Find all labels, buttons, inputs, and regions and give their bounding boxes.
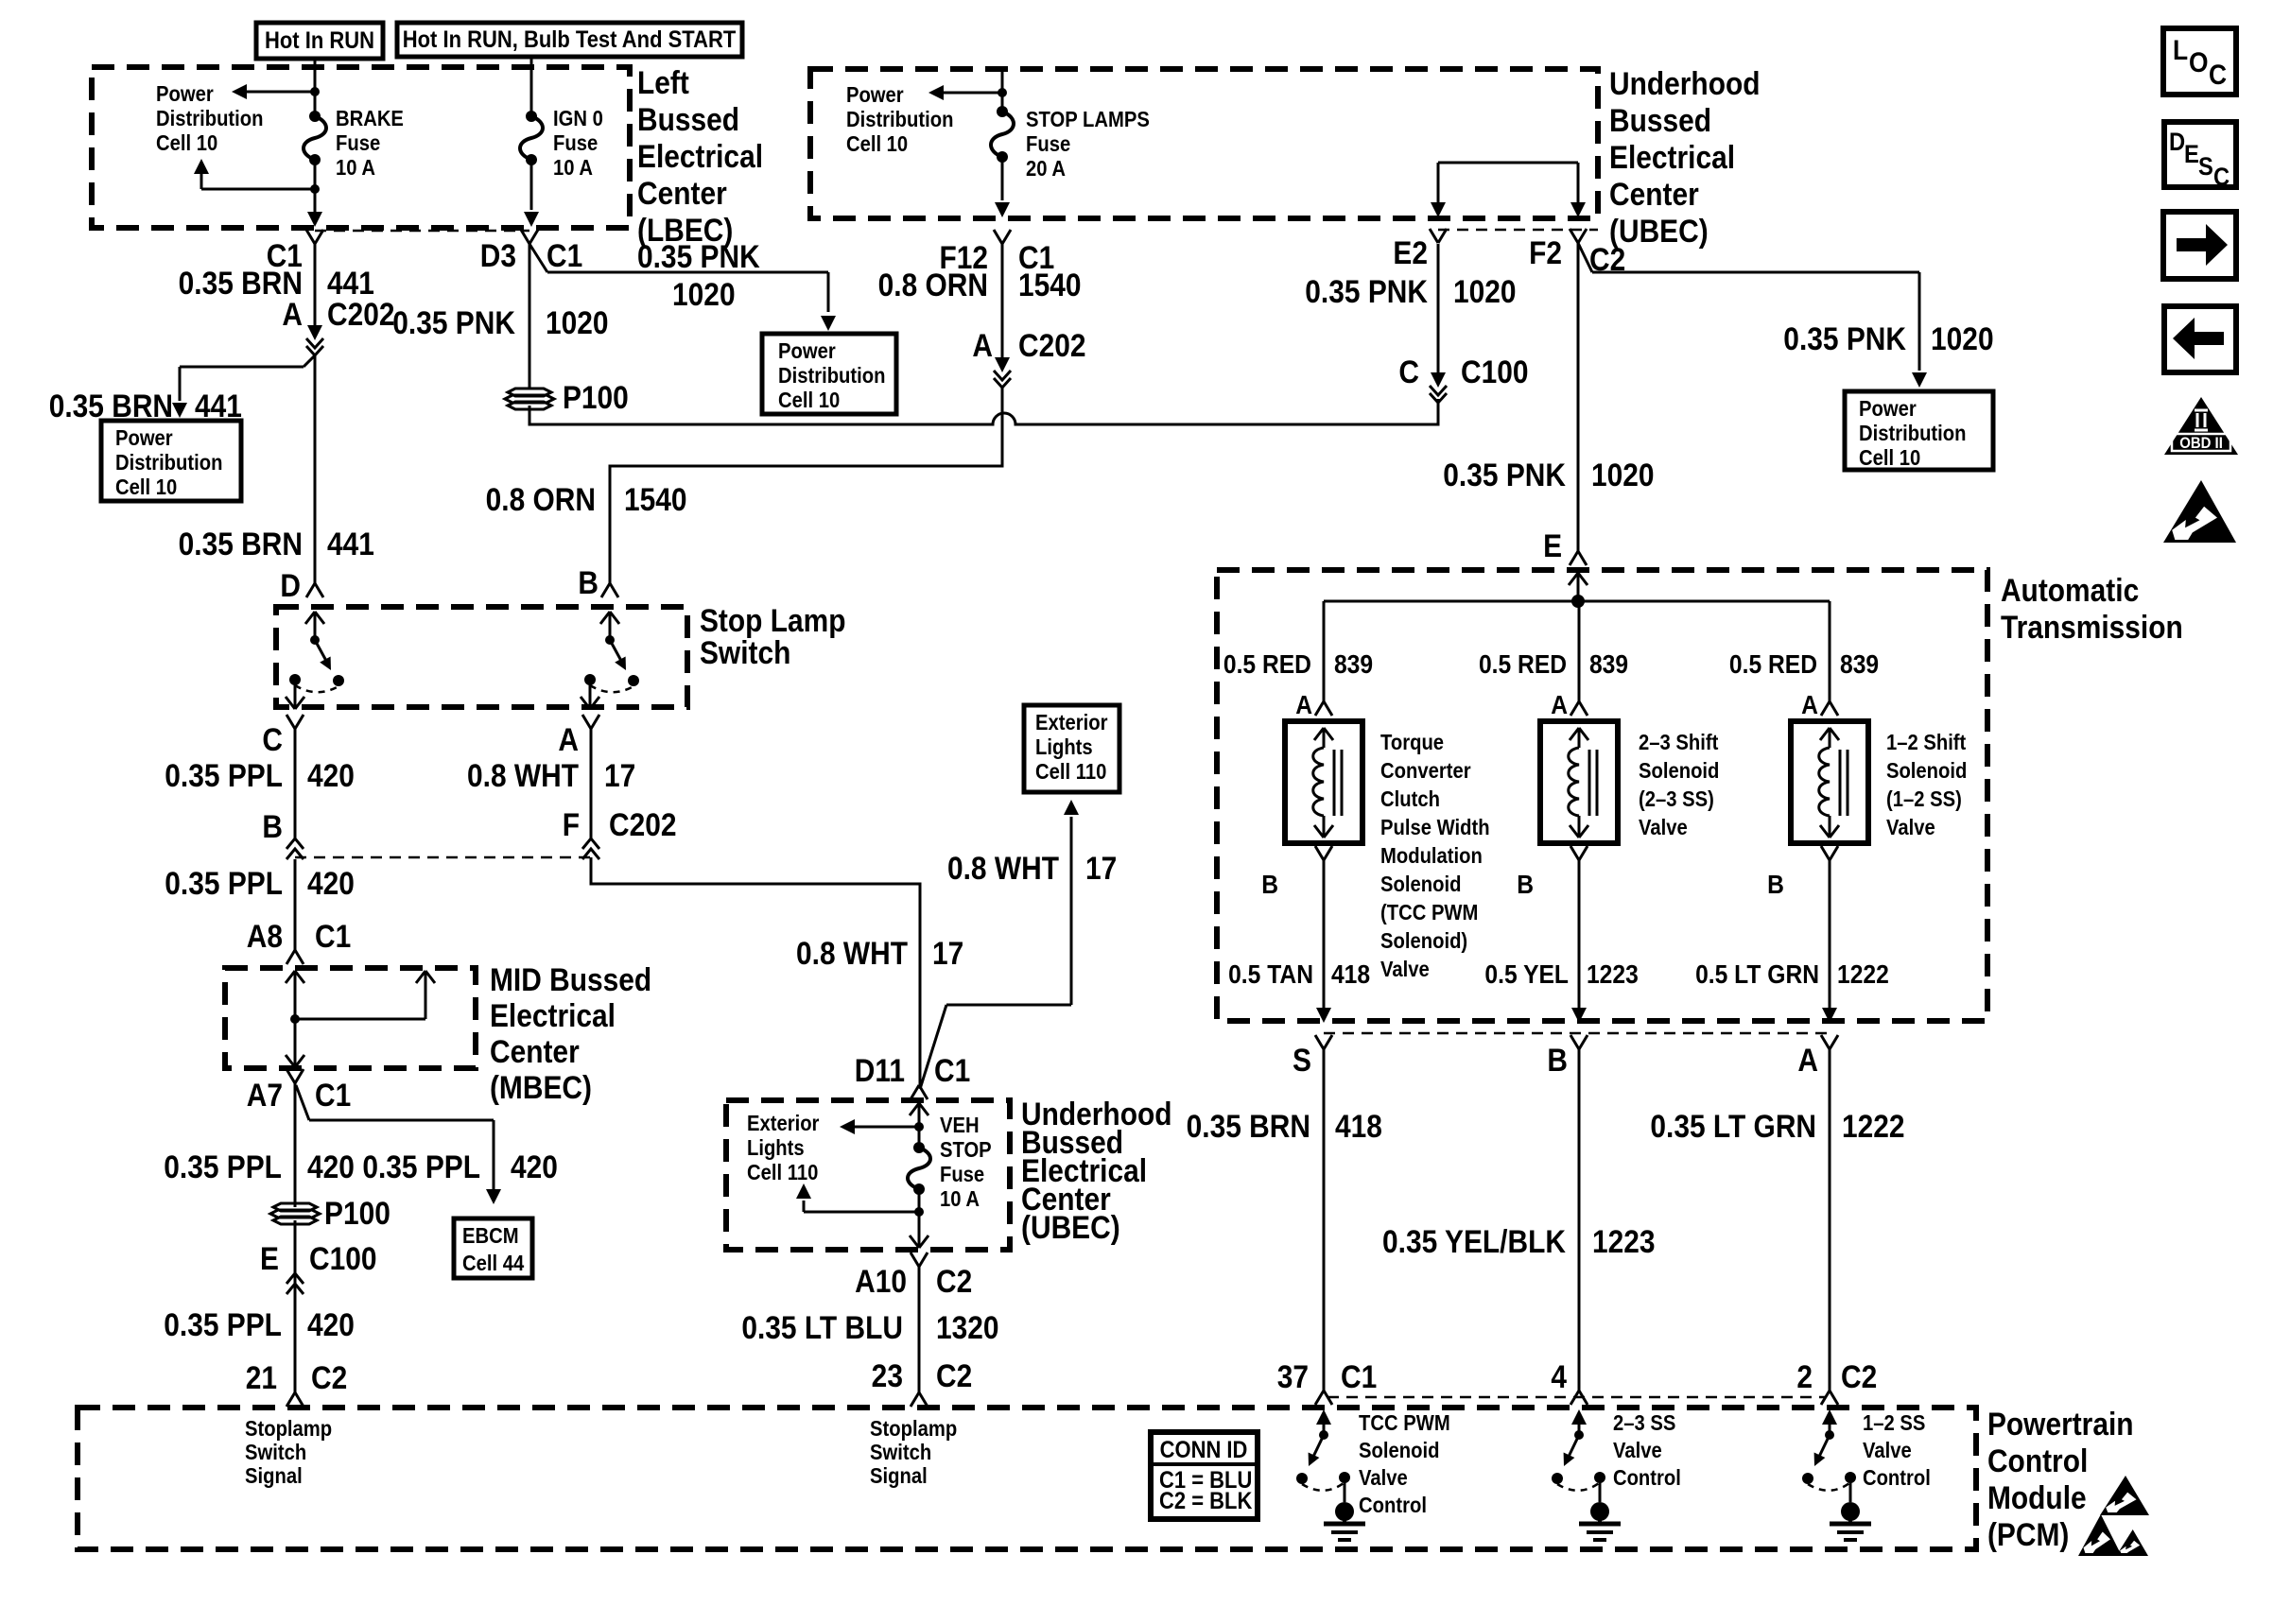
svg-text:1020: 1020 bbox=[1591, 457, 1655, 492]
svg-text:Cell 44: Cell 44 bbox=[462, 1251, 524, 1276]
svg-text:A: A bbox=[1551, 690, 1568, 720]
svg-text:0.35 BRN: 0.35 BRN bbox=[1187, 1108, 1310, 1144]
svg-text:MID Bussed: MID Bussed bbox=[490, 961, 651, 997]
svg-text:0.35 PNK: 0.35 PNK bbox=[1305, 273, 1428, 309]
wire feed to IGN 0 fuse bbox=[530, 57, 533, 68]
ESD symbol near Module bbox=[2100, 1476, 2149, 1515]
svg-text:Solenoid: Solenoid bbox=[1359, 1438, 1439, 1463]
PCM connector boundary (thin dashed) bbox=[1327, 1396, 1825, 1399]
wire 0.8 WHT 17 branch to Exterior Lights bbox=[920, 1005, 946, 1089]
svg-text:Control: Control bbox=[1359, 1493, 1427, 1518]
svg-text:Valve: Valve bbox=[1886, 815, 1935, 840]
svg-text:0.8 ORN: 0.8 ORN bbox=[486, 481, 596, 517]
svg-text:2–3 SS: 2–3 SS bbox=[1613, 1410, 1675, 1436]
svg-text:C: C bbox=[2209, 58, 2227, 90]
svg-text:Power: Power bbox=[778, 338, 836, 364]
svg-text:Cell 110: Cell 110 bbox=[1035, 759, 1106, 785]
svg-text:D: D bbox=[280, 567, 301, 603]
svg-text:1223: 1223 bbox=[1592, 1223, 1656, 1259]
svg-text:0.35 PPL: 0.35 PPL bbox=[165, 865, 283, 901]
svg-text:Distribution: Distribution bbox=[156, 106, 264, 131]
svg-text:Cell 10: Cell 10 bbox=[1859, 445, 1920, 471]
pin F2 / C2 of UBEC bbox=[1570, 229, 1578, 243]
svg-text:C100: C100 bbox=[1461, 354, 1529, 389]
fuse STOP LAMPS 20 A bbox=[1001, 69, 1004, 112]
svg-text:Switch: Switch bbox=[700, 634, 790, 670]
pin C1 (BRAKE output) bbox=[306, 230, 315, 244]
svg-text:Lights: Lights bbox=[747, 1135, 805, 1161]
svg-text:Modulation: Modulation bbox=[1380, 843, 1483, 869]
svg-text:C2: C2 bbox=[936, 1263, 972, 1299]
svg-text:23: 23 bbox=[872, 1357, 903, 1393]
svg-text:Cell 10: Cell 10 bbox=[156, 130, 217, 156]
svg-text:420: 420 bbox=[511, 1149, 558, 1184]
svg-text:A: A bbox=[1295, 690, 1312, 720]
svg-text:Fuse: Fuse bbox=[336, 130, 380, 156]
reference box Power Distribution Cell 10 (left) bbox=[101, 421, 241, 501]
svg-text:420: 420 bbox=[307, 1306, 355, 1342]
svg-text:E: E bbox=[2184, 141, 2199, 169]
icon DESC bbox=[2164, 122, 2236, 187]
connector C202 pin A (orange wire) bbox=[1001, 359, 1004, 361]
wire 0.35 PNK 1020 (E2 to C100) bbox=[1437, 244, 1440, 374]
reference box Power Distribution Cell 10 (middle) bbox=[762, 334, 896, 414]
svg-text:C2: C2 bbox=[311, 1359, 347, 1395]
svg-text:Cell 10: Cell 10 bbox=[778, 388, 840, 413]
svg-text:Powertrain: Powertrain bbox=[1987, 1406, 2134, 1442]
svg-text:VEH: VEH bbox=[940, 1113, 980, 1138]
svg-text:Valve: Valve bbox=[1639, 815, 1688, 840]
switch TCC PWM Solenoid Valve Control bbox=[1323, 1420, 1326, 1435]
svg-text:L: L bbox=[2173, 33, 2188, 65]
pin E of automatic transmission bbox=[1570, 551, 1578, 565]
wire 0.35 PPL 420 (C to C202 B) bbox=[294, 729, 297, 838]
pin B of stop lamp switch bbox=[601, 583, 610, 597]
PCM box (Powertrain Control Module) bbox=[78, 1408, 1976, 1549]
switch contacts (stop lamp half) bbox=[609, 612, 612, 640]
transmission internal feed bus bbox=[1577, 573, 1580, 601]
svg-text:Valve: Valve bbox=[1359, 1465, 1408, 1491]
wire 0.35 PNK 1020 branch from D3 to Power Distribution bbox=[529, 244, 547, 272]
svg-text:C: C bbox=[2213, 164, 2230, 192]
solenoid TCC PWM valve bbox=[1285, 721, 1362, 843]
svg-text:17: 17 bbox=[1085, 850, 1117, 886]
svg-text:Solenoid: Solenoid bbox=[1380, 872, 1461, 897]
pin A10 / C2 of UBEC bbox=[911, 1253, 919, 1267]
UBEC box top (Underhood Bussed Electrical Center) bbox=[810, 69, 1598, 218]
svg-text:(TCC PWM: (TCC PWM bbox=[1380, 900, 1478, 925]
svg-text:Underhood: Underhood bbox=[1609, 65, 1761, 101]
svg-text:0.8 ORN: 0.8 ORN bbox=[878, 267, 988, 302]
svg-text:S: S bbox=[2198, 153, 2213, 181]
svg-text:CONN ID: CONN ID bbox=[1160, 1437, 1248, 1463]
svg-text:A: A bbox=[1801, 690, 1818, 720]
svg-text:17: 17 bbox=[604, 757, 635, 793]
svg-text:Distribution: Distribution bbox=[846, 107, 954, 132]
pin F12 / C1 of UBEC bbox=[994, 230, 1002, 244]
svg-text:Distribution: Distribution bbox=[115, 450, 223, 475]
svg-text:Cell 110: Cell 110 bbox=[747, 1160, 818, 1185]
svg-text:(2–3 SS): (2–3 SS) bbox=[1639, 786, 1714, 812]
svg-text:1–2 Shift: 1–2 Shift bbox=[1886, 730, 1966, 755]
reference box EBCM Cell 44 bbox=[454, 1218, 532, 1278]
connector C202 boundary (thin dashed) bbox=[295, 856, 591, 859]
wire 0.35 BRN 418 (S to PCM 37) bbox=[1323, 1049, 1326, 1391]
wire / connector C100 pin E bbox=[294, 1220, 297, 1392]
power feed box Hot In RUN, Bulb Test And START bbox=[397, 23, 742, 57]
svg-text:A: A bbox=[1797, 1042, 1818, 1078]
MBEC box (MID Bussed Electrical Center) bbox=[225, 968, 476, 1068]
svg-text:1020: 1020 bbox=[1453, 273, 1517, 309]
svg-text:Exterior: Exterior bbox=[1035, 710, 1108, 735]
svg-text:Hot In RUN, Bulb Test And STAR: Hot In RUN, Bulb Test And START bbox=[403, 26, 737, 53]
svg-text:E: E bbox=[1543, 527, 1562, 563]
svg-text:C1: C1 bbox=[1341, 1358, 1377, 1394]
svg-text:1222: 1222 bbox=[1842, 1108, 1905, 1144]
svg-text:(PCM): (PCM) bbox=[1987, 1516, 2069, 1552]
pin 2 / C2 of PCM bbox=[1821, 1391, 1830, 1405]
svg-text:Electrical: Electrical bbox=[1609, 139, 1735, 175]
svg-text:0.35 PNK: 0.35 PNK bbox=[1783, 320, 1906, 356]
svg-text:D3: D3 bbox=[480, 237, 516, 273]
svg-text:0.5 TAN: 0.5 TAN bbox=[1228, 959, 1313, 990]
pin 4 of PCM bbox=[1570, 1391, 1579, 1405]
svg-text:Pulse Width: Pulse Width bbox=[1380, 815, 1490, 840]
svg-text:Power: Power bbox=[115, 425, 173, 451]
fuse VEH STOP 10 A bbox=[918, 1103, 921, 1148]
svg-text:839: 839 bbox=[1589, 649, 1628, 680]
svg-text:420: 420 bbox=[307, 757, 355, 793]
svg-text:C1: C1 bbox=[315, 918, 351, 954]
switch 1-2 SS Valve Control bbox=[1829, 1420, 1831, 1435]
svg-text:P100: P100 bbox=[563, 379, 629, 415]
svg-text:0.35 PPL: 0.35 PPL bbox=[164, 1306, 282, 1342]
connector C1 boundary (thin dashed) bbox=[315, 230, 529, 233]
reference box Power Distribution Cell 10 (right) bbox=[1845, 391, 1993, 470]
pin C of stop lamp switch bbox=[286, 715, 295, 729]
MBEC internal bus bbox=[294, 971, 297, 1019]
fuse BRAKE 10 A bbox=[314, 68, 317, 116]
pin 21 / C2 of PCM bbox=[286, 1392, 295, 1407]
connector C202 pin A (left) bbox=[314, 327, 317, 329]
svg-text:420: 420 bbox=[307, 865, 355, 901]
svg-text:Fuse: Fuse bbox=[940, 1162, 984, 1187]
svg-text:17: 17 bbox=[932, 935, 963, 971]
CONN ID table bbox=[1151, 1432, 1258, 1519]
pin A7 / C1 of MBEC bbox=[286, 1069, 295, 1083]
svg-text:1222: 1222 bbox=[1837, 959, 1889, 990]
svg-text:1020: 1020 bbox=[546, 304, 609, 340]
svg-text:10 A: 10 A bbox=[940, 1186, 980, 1212]
svg-text:Switch: Switch bbox=[870, 1440, 931, 1465]
svg-text:F2: F2 bbox=[1529, 234, 1562, 270]
svg-text:839: 839 bbox=[1840, 649, 1879, 680]
svg-text:Power: Power bbox=[846, 82, 904, 108]
wire pink run to C100 (hops orange wire) bbox=[529, 399, 1438, 424]
svg-text:A7: A7 bbox=[247, 1077, 283, 1113]
svg-text:1540: 1540 bbox=[1018, 267, 1082, 302]
svg-text:Stoplamp: Stoplamp bbox=[870, 1416, 957, 1442]
svg-text:Center: Center bbox=[637, 175, 727, 211]
svg-text:STOP: STOP bbox=[940, 1137, 992, 1163]
splice P100 (left) bbox=[273, 1203, 317, 1211]
svg-text:0.8 WHT: 0.8 WHT bbox=[796, 935, 908, 971]
svg-text:Distribution: Distribution bbox=[778, 363, 886, 389]
svg-text:Center: Center bbox=[1609, 176, 1699, 212]
LBEC box (Left Bussed Electrical Center) bbox=[92, 67, 630, 228]
connector C2 boundary (thin dashed) bbox=[1438, 229, 1598, 232]
solenoid 2-3 shift valve bbox=[1540, 721, 1618, 843]
svg-text:1020: 1020 bbox=[672, 276, 736, 312]
svg-text:A: A bbox=[558, 721, 579, 757]
wire 0.35 PNK 1020 branch F2 to Power Distribution right bbox=[1578, 243, 1592, 272]
svg-text:0.35 PPL: 0.35 PPL bbox=[362, 1149, 480, 1184]
svg-text:C1: C1 bbox=[547, 237, 582, 273]
svg-text:F: F bbox=[563, 806, 580, 842]
svg-text:C2: C2 bbox=[1841, 1358, 1877, 1394]
svg-text:C202: C202 bbox=[609, 806, 677, 842]
wire 0.8 WHT from C202 F to UBEC D11 bbox=[591, 857, 920, 1085]
svg-text:Bussed: Bussed bbox=[1609, 102, 1711, 138]
svg-text:B: B bbox=[578, 564, 599, 600]
svg-text:Automatic: Automatic bbox=[2001, 572, 2139, 608]
svg-text:Bussed: Bussed bbox=[637, 101, 739, 137]
ESD symbol near (PCM) bbox=[2078, 1514, 2122, 1556]
pin 23 / C2 of PCM bbox=[911, 1392, 919, 1407]
svg-text:1320: 1320 bbox=[936, 1309, 999, 1345]
wire 0.35 PNK 1020 (F2 down to E) bbox=[1577, 243, 1580, 551]
solenoid 1-2 shift valve bbox=[1791, 721, 1868, 843]
pin 37 / C1 of PCM bbox=[1315, 1391, 1324, 1405]
svg-text:O: O bbox=[2189, 45, 2209, 78]
svg-text:0.35 PNK: 0.35 PNK bbox=[392, 304, 515, 340]
svg-text:C1: C1 bbox=[934, 1052, 970, 1088]
svg-text:0.35 PPL: 0.35 PPL bbox=[165, 757, 283, 793]
svg-text:Exterior: Exterior bbox=[747, 1111, 820, 1136]
svg-text:Control: Control bbox=[1863, 1465, 1931, 1491]
svg-text:0.8 WHT: 0.8 WHT bbox=[467, 757, 579, 793]
pin B of solenoid bbox=[1315, 846, 1324, 860]
icon arrow right bbox=[2163, 212, 2236, 279]
svg-text:B: B bbox=[1767, 870, 1784, 900]
svg-text:Valve: Valve bbox=[1613, 1438, 1662, 1463]
reference box Exterior Lights Cell 110 bbox=[1024, 705, 1119, 792]
svg-text:BRAKE: BRAKE bbox=[336, 106, 404, 131]
svg-text:Left: Left bbox=[637, 64, 689, 100]
svg-text:0.35 LT BLU: 0.35 LT BLU bbox=[741, 1309, 903, 1345]
svg-text:Stoplamp: Stoplamp bbox=[245, 1416, 332, 1442]
svg-text:2–3 Shift: 2–3 Shift bbox=[1639, 730, 1718, 755]
svg-text:D: D bbox=[2169, 129, 2185, 157]
svg-text:B: B bbox=[262, 808, 283, 844]
svg-text:420: 420 bbox=[307, 1149, 355, 1184]
svg-text:STOP LAMPS: STOP LAMPS bbox=[1026, 107, 1150, 132]
svg-text:A: A bbox=[972, 327, 993, 363]
svg-text:20 A: 20 A bbox=[1026, 156, 1066, 181]
automatic transmission box bbox=[1217, 570, 1987, 1021]
svg-text:4: 4 bbox=[1551, 1358, 1567, 1394]
svg-text:Control: Control bbox=[1613, 1465, 1681, 1491]
pin B of solenoid bbox=[1821, 846, 1830, 860]
svg-text:A: A bbox=[282, 296, 303, 332]
fuse IGN 0 10 A bbox=[530, 68, 533, 116]
svg-text:0.35 BRN: 0.35 BRN bbox=[179, 526, 303, 561]
wire 0.35 YEL/BLK 1223 (B to PCM 4) bbox=[1578, 1049, 1581, 1391]
UBEC box lower (Underhood Bussed Electrical Center) bbox=[726, 1100, 1010, 1250]
svg-text:0.35 PNK: 0.35 PNK bbox=[1443, 457, 1566, 492]
wire 0.35 PPL 420 (B to MBEC A8) bbox=[294, 859, 297, 950]
pin E2 of UBEC bbox=[1430, 229, 1438, 243]
svg-text:Power: Power bbox=[156, 81, 214, 107]
svg-text:0.35 LT GRN: 0.35 LT GRN bbox=[1650, 1108, 1816, 1144]
svg-text:(UBEC): (UBEC) bbox=[1021, 1209, 1120, 1245]
svg-text:C100: C100 bbox=[309, 1240, 377, 1276]
svg-text:D11: D11 bbox=[855, 1052, 905, 1088]
svg-text:0.5 YEL: 0.5 YEL bbox=[1484, 959, 1569, 990]
svg-text:0.5 LT GRN: 0.5 LT GRN bbox=[1695, 959, 1819, 990]
pin A of stop lamp switch bbox=[582, 715, 591, 729]
svg-text:1540: 1540 bbox=[624, 481, 687, 517]
pin S of transmission connector bbox=[1315, 1035, 1324, 1049]
svg-text:Cell 10: Cell 10 bbox=[846, 131, 908, 157]
svg-text:0.5 RED: 0.5 RED bbox=[1223, 649, 1311, 680]
svg-text:Module: Module bbox=[1987, 1479, 2087, 1515]
pin B of transmission connector bbox=[1570, 1035, 1579, 1049]
svg-text:Torque: Torque bbox=[1380, 730, 1444, 755]
pin A of transmission connector bbox=[1821, 1035, 1830, 1049]
svg-text:Fuse: Fuse bbox=[1026, 131, 1070, 157]
svg-text:Control: Control bbox=[1987, 1443, 2088, 1478]
switch contacts (brake warning half) bbox=[314, 612, 317, 640]
svg-text:Fuse: Fuse bbox=[553, 130, 598, 156]
svg-text:TCC PWM: TCC PWM bbox=[1359, 1410, 1450, 1436]
svg-text:B: B bbox=[1517, 870, 1534, 900]
wire 0.35 LT BLU 1320 (A10 to PCM 23) bbox=[918, 1267, 921, 1392]
stop lamp switch box bbox=[276, 607, 687, 707]
svg-text:1223: 1223 bbox=[1587, 959, 1639, 990]
wire 0.35 BRN 441 to stop lamp switch D bbox=[314, 355, 317, 583]
svg-text:P100: P100 bbox=[324, 1195, 390, 1231]
svg-text:(MBEC): (MBEC) bbox=[490, 1069, 592, 1105]
svg-text:Solenoid: Solenoid bbox=[1886, 758, 1967, 784]
wire 0.35 LT GRN 1222 (A to PCM 2) bbox=[1829, 1049, 1831, 1391]
svg-text:418: 418 bbox=[1331, 959, 1370, 990]
svg-text:1020: 1020 bbox=[1931, 320, 1994, 356]
svg-text:E: E bbox=[260, 1240, 279, 1276]
pin D3 / C1 (IGN 0 output) bbox=[521, 230, 529, 244]
svg-text:Electrical: Electrical bbox=[637, 138, 763, 174]
pin B of solenoid bbox=[1570, 846, 1579, 860]
svg-text:21: 21 bbox=[246, 1359, 277, 1395]
svg-text:0.5 RED: 0.5 RED bbox=[1479, 649, 1567, 680]
svg-text:Solenoid: Solenoid bbox=[1639, 758, 1719, 784]
svg-text:Stop Lamp: Stop Lamp bbox=[700, 602, 846, 638]
svg-text:418: 418 bbox=[1335, 1108, 1382, 1144]
svg-text:10 A: 10 A bbox=[336, 155, 375, 181]
svg-text:37: 37 bbox=[1277, 1358, 1309, 1394]
svg-text:2: 2 bbox=[1796, 1358, 1813, 1394]
UBEC internal bus bbox=[1438, 162, 1578, 164]
svg-text:EBCM: EBCM bbox=[462, 1223, 519, 1249]
svg-text:C202: C202 bbox=[1018, 327, 1086, 363]
splice P100 (right) bbox=[508, 389, 551, 396]
svg-text:839: 839 bbox=[1334, 649, 1373, 680]
wire 0.35 PPL 420 (A7 to P100) bbox=[294, 1083, 297, 1207]
svg-text:Electrical: Electrical bbox=[490, 997, 616, 1033]
svg-text:Converter: Converter bbox=[1380, 758, 1471, 784]
wire feed to BRAKE fuse bbox=[314, 59, 317, 68]
svg-text:C1: C1 bbox=[315, 1077, 351, 1113]
svg-text:Solenoid): Solenoid) bbox=[1380, 928, 1467, 954]
svg-text:Signal: Signal bbox=[870, 1463, 928, 1489]
svg-text:Lights: Lights bbox=[1035, 734, 1093, 760]
svg-text:Switch: Switch bbox=[245, 1440, 306, 1465]
svg-text:Clutch: Clutch bbox=[1380, 786, 1440, 812]
pin A8 / C1 of MBEC bbox=[286, 950, 295, 964]
svg-text:C2 = BLK: C2 = BLK bbox=[1159, 1488, 1252, 1514]
svg-text:Distribution: Distribution bbox=[1859, 421, 1967, 446]
svg-text:B: B bbox=[1261, 870, 1278, 900]
svg-text:Transmission: Transmission bbox=[2001, 609, 2183, 645]
svg-text:OBD II: OBD II bbox=[2179, 435, 2223, 452]
connector C202 pin B (chevrons) bbox=[286, 838, 304, 849]
svg-text:10 A: 10 A bbox=[553, 155, 593, 181]
wire 0.8 ORN 1540 to stop lamp switch B bbox=[610, 388, 1002, 583]
svg-text:Hot In RUN: Hot In RUN bbox=[265, 27, 374, 54]
svg-text:0.35 PNK: 0.35 PNK bbox=[637, 238, 760, 274]
svg-text:0.5 RED: 0.5 RED bbox=[1729, 649, 1817, 680]
svg-text:0.35 YEL/BLK: 0.35 YEL/BLK bbox=[1382, 1223, 1566, 1259]
connector C100 pin C bbox=[1437, 374, 1440, 376]
icon ESD triangle bbox=[2163, 480, 2236, 543]
svg-text:Power: Power bbox=[1859, 396, 1917, 422]
power feed box Hot In RUN bbox=[256, 23, 383, 59]
wire 0.35 BRN 441 (C1 to C202) bbox=[314, 244, 317, 329]
wire 0.35 BRN 441 branch to Power Distribution bbox=[304, 355, 315, 367]
svg-text:C: C bbox=[262, 721, 283, 757]
transmission case connector boundary (thin dashed) bbox=[1324, 1032, 1830, 1035]
wire 0.8 ORN 1540 (F12 to C202 A) bbox=[1001, 244, 1004, 361]
svg-text:A10: A10 bbox=[855, 1263, 907, 1299]
svg-text:B: B bbox=[1547, 1042, 1568, 1078]
connector C202 pin F (chevrons) bbox=[582, 838, 599, 849]
svg-text:IGN 0: IGN 0 bbox=[553, 106, 603, 131]
icon arrow left bbox=[2164, 306, 2236, 372]
svg-text:C202: C202 bbox=[327, 296, 395, 332]
svg-text:C: C bbox=[1398, 354, 1419, 389]
icon LOC bbox=[2163, 28, 2236, 95]
svg-text:Center: Center bbox=[490, 1033, 580, 1069]
svg-text:Cell 10: Cell 10 bbox=[115, 475, 177, 500]
svg-text:Valve: Valve bbox=[1863, 1438, 1912, 1463]
svg-text:E2: E2 bbox=[1393, 234, 1428, 270]
switch 2-3 SS Valve Control bbox=[1578, 1420, 1581, 1435]
svg-text:0.8 WHT: 0.8 WHT bbox=[947, 850, 1059, 886]
pin D of stop lamp switch bbox=[306, 583, 315, 597]
svg-text:1–2 SS: 1–2 SS bbox=[1863, 1410, 1925, 1436]
svg-text:C2: C2 bbox=[936, 1357, 972, 1393]
svg-text:Valve: Valve bbox=[1380, 957, 1430, 982]
wire 0.35 PNK 1020 (D3 to P100) bbox=[529, 244, 531, 388]
svg-text:A8: A8 bbox=[247, 918, 283, 954]
svg-text:(1–2 SS): (1–2 SS) bbox=[1886, 786, 1962, 812]
svg-text:441: 441 bbox=[327, 526, 374, 561]
svg-text:Signal: Signal bbox=[245, 1463, 303, 1489]
icon OBD II triangle bbox=[2164, 397, 2238, 455]
wire 0.35 PPL 420 branch to EBCM bbox=[296, 1085, 309, 1120]
svg-text:0.35 PPL: 0.35 PPL bbox=[164, 1149, 282, 1184]
svg-text:S: S bbox=[1293, 1042, 1311, 1078]
